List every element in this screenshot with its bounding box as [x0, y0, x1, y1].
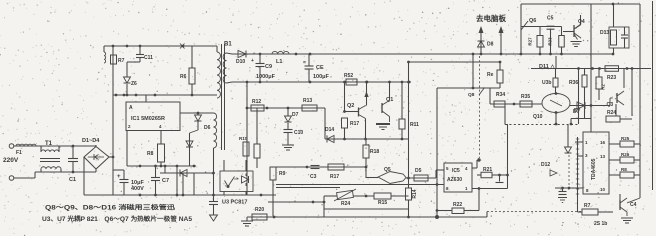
svg-text:U3、U7 光耦P 821 Q6～Q7 为热敏片一极管 NA: U3、U7 光耦P 821 Q6～Q7 为热敏片一极管 NA5 — [42, 215, 193, 223]
svg-text:C7: C7 — [162, 178, 169, 184]
svg-text:13: 13 — [600, 154, 606, 159]
svg-text:D6: D6 — [204, 125, 211, 131]
svg-text:1000μF: 1000μF — [256, 74, 276, 80]
svg-text:Q6: Q6 — [529, 18, 536, 24]
svg-text:Q4: Q4 — [578, 19, 585, 25]
svg-text:IC1 5M0265R: IC1 5M0265R — [131, 116, 165, 122]
svg-text:D7: D7 — [292, 112, 299, 118]
svg-text:Q5: Q5 — [384, 167, 391, 173]
svg-text:R25: R25 — [621, 136, 630, 141]
svg-text:2S 1b: 2S 1b — [594, 221, 607, 227]
svg-text:R33: R33 — [548, 37, 553, 46]
svg-text:+: + — [251, 58, 254, 64]
svg-text:R24: R24 — [341, 201, 350, 207]
svg-text:T1: T1 — [45, 141, 53, 147]
svg-text:R34: R34 — [496, 92, 505, 98]
svg-text:R6: R6 — [180, 74, 187, 80]
svg-text:L1: L1 — [276, 59, 282, 65]
svg-text:R9: R9 — [279, 171, 286, 177]
svg-text:Q8～Q9、D8～D16 消磁用三极管迅: Q8～Q9、D8～D16 消磁用三极管迅 — [45, 204, 176, 212]
svg-text:R14: R14 — [412, 189, 418, 198]
svg-text:C1: C1 — [69, 177, 76, 183]
svg-text:Z6: Z6 — [131, 81, 137, 87]
svg-text:Q8: Q8 — [468, 92, 475, 98]
svg-text:D5: D5 — [415, 168, 422, 174]
svg-text:R52: R52 — [344, 73, 353, 79]
svg-text:RE: RE — [621, 167, 627, 172]
svg-text:R2: R2 — [601, 84, 606, 90]
svg-text:R23: R23 — [607, 75, 616, 81]
svg-text:C11: C11 — [144, 55, 153, 61]
svg-text:D8: D8 — [487, 42, 494, 48]
svg-text:C9: C9 — [265, 64, 272, 70]
svg-text:C10: C10 — [294, 130, 303, 136]
svg-text:R24: R24 — [607, 110, 616, 116]
svg-text:Q10: Q10 — [533, 114, 543, 120]
svg-text:220V: 220V — [3, 157, 19, 164]
svg-text:100μF: 100μF — [313, 74, 330, 80]
svg-text:CE: CE — [316, 65, 324, 71]
svg-text:Q2: Q2 — [347, 103, 354, 109]
svg-text:R12: R12 — [252, 99, 261, 105]
svg-text:R22: R22 — [453, 202, 462, 208]
svg-text:F1: F1 — [16, 150, 22, 156]
svg-text:C4: C4 — [630, 202, 637, 208]
svg-text:D12: D12 — [541, 162, 550, 168]
svg-text:R18: R18 — [370, 149, 379, 155]
svg-text:D7: D7 — [574, 108, 581, 114]
svg-text:去电脑板: 去电脑板 — [476, 13, 506, 23]
svg-text:16: 16 — [600, 140, 606, 145]
svg-text:400V: 400V — [131, 186, 144, 192]
svg-text:Re: Re — [487, 72, 494, 78]
svg-text:C3: C3 — [310, 174, 317, 180]
svg-text:IC5: IC5 — [452, 168, 460, 174]
svg-text:R26: R26 — [621, 152, 630, 157]
svg-text:TDA4605: TDA4605 — [591, 158, 597, 180]
svg-text:R15: R15 — [378, 200, 387, 206]
svg-text:AZ630: AZ630 — [447, 177, 462, 183]
svg-text:+: + — [117, 174, 121, 180]
svg-text:C5: C5 — [547, 16, 554, 22]
svg-text:R20: R20 — [255, 207, 264, 213]
svg-text:R7: R7 — [118, 58, 125, 64]
svg-text:U3b: U3b — [542, 80, 551, 86]
svg-text:=: = — [303, 60, 306, 66]
svg-text:B1: B1 — [224, 42, 232, 48]
svg-text:10: 10 — [600, 187, 606, 192]
svg-text:D14: D14 — [325, 127, 334, 133]
svg-text:R35: R35 — [521, 94, 530, 100]
svg-text:R27: R27 — [528, 37, 533, 46]
svg-text:R11: R11 — [410, 122, 419, 128]
svg-text:R36: R36 — [569, 80, 578, 86]
svg-text:A: A — [129, 105, 133, 111]
svg-text:R17: R17 — [330, 174, 339, 180]
svg-text:R10: R10 — [239, 136, 248, 141]
svg-text:D13: D13 — [600, 30, 609, 36]
svg-text:R7: R7 — [584, 203, 591, 209]
svg-text:U3 PC817: U3 PC817 — [222, 200, 247, 206]
svg-text:D1~D4: D1~D4 — [82, 138, 100, 144]
svg-text:R8: R8 — [147, 151, 154, 157]
svg-text:R13: R13 — [303, 98, 312, 104]
svg-text:R17: R17 — [350, 121, 359, 127]
svg-text:D10: D10 — [236, 59, 245, 65]
